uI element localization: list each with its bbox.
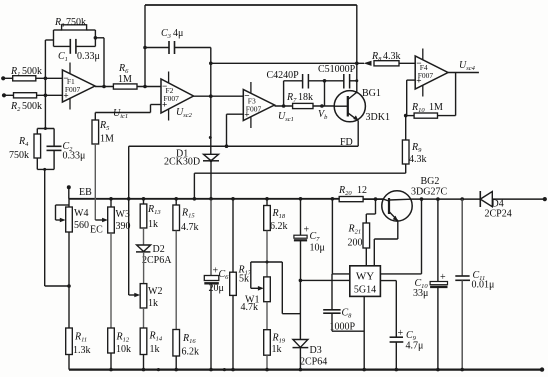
W1 wiper (251, 287, 260, 289)
C2 branch lower lead (53, 150, 55, 169)
wire R18 to W1 (266, 231, 268, 277)
wire C8 leg (331, 274, 333, 309)
feedback loop top wire (54, 29, 62, 31)
resistor R7 (293, 103, 313, 108)
wire R2 to F1 non-inverting input (37, 94, 63, 96)
node F1 output (102, 85, 106, 89)
transistor BG2 (382, 191, 412, 221)
wire D3 node down (299, 280, 301, 339)
node bus/R13 (142, 197, 146, 201)
svg-text:1k: 1k (148, 298, 158, 309)
node bottom bus R19 (265, 368, 269, 372)
node bus/W3 (109, 197, 113, 201)
wire bus to W3 (110, 199, 112, 207)
wire R19 to bottom bus (266, 355, 268, 369)
op-amp F3 (243, 90, 274, 121)
wire bus to R17 (232, 199, 234, 272)
node collector wire/WY riser (420, 197, 424, 201)
wire R16 to bottom bus (175, 356, 177, 370)
node column/bias bus (209, 197, 213, 201)
input terminal 2 (2, 93, 6, 97)
svg-text:D3: D3 (310, 345, 322, 356)
wire bus to W4 (68, 199, 70, 207)
wire EB stub (68, 187, 70, 199)
svg-text:WY: WY (356, 271, 374, 283)
svg-text:W4: W4 (74, 208, 88, 219)
W4 wiper (56, 219, 63, 221)
wire bus to C6 (210, 199, 212, 276)
node lower rail/bus (193, 197, 197, 201)
node F2 output branch (209, 94, 213, 98)
wire W3 to R12 (110, 233, 112, 328)
capacitor C11 (455, 275, 469, 277)
svg-text:BG1: BG1 (362, 88, 381, 99)
wire top rail left down to F2 input (144, 5, 146, 87)
wire C3 right lead (175, 47, 211, 49)
output terminal plus (543, 197, 547, 201)
wire C6 to bottom bus (210, 283, 212, 369)
wire bus to C7 (300, 199, 302, 235)
resistor R8 (374, 61, 399, 66)
svg-text:1M: 1M (100, 134, 114, 145)
resistor R20 (339, 197, 363, 202)
wire bus down to WY (331, 199, 333, 274)
resistor R5 (92, 120, 99, 144)
wire R7 to BG1 base (313, 105, 334, 107)
resistor R9 (402, 140, 409, 164)
wire bus to R18 (266, 199, 268, 206)
wire BG1 emitter down (357, 121, 359, 147)
wire R10 right lead (438, 115, 456, 117)
capacitor C9 (390, 336, 403, 338)
node Vb (320, 104, 324, 108)
svg-text:12: 12 (357, 185, 367, 196)
terminal EB (67, 185, 71, 189)
svg-text:0.33μ: 0.33μ (77, 51, 100, 62)
wire rail corner to W2 wiper (128, 199, 130, 295)
wire D3 node to WY (300, 279, 349, 281)
resistor R18 (264, 206, 271, 231)
potentiometer W4 (66, 207, 73, 232)
wire R10 left lead (406, 115, 414, 117)
wire Vb riser (324, 81, 326, 106)
node C3 left (143, 46, 147, 50)
node feedback right (94, 36, 98, 40)
wire R5 top to F2 plus (94, 113, 96, 121)
potentiometer W2 (140, 284, 147, 308)
feedback loop right side (94, 30, 96, 46)
svg-text:−: − (63, 73, 68, 83)
potentiometer W1 (264, 277, 271, 302)
node bus/R17 (231, 197, 235, 201)
node W1 top junction (266, 261, 269, 264)
diode D4 (479, 191, 481, 207)
wire WY right pin2 (380, 280, 396, 282)
diode D1 (204, 154, 219, 161)
W2 wiper arrow (129, 294, 137, 296)
node bus/WY riser (331, 197, 335, 201)
wire R6 to F2 inverting node (137, 86, 161, 88)
wire F3 plus from rail (227, 113, 244, 115)
svg-text:−: − (162, 81, 167, 91)
wire R21 to WY top (365, 248, 367, 266)
svg-text:0.01μ: 0.01μ (472, 280, 495, 291)
resistor R2 (14, 93, 37, 98)
feedback stub to output riser (95, 37, 104, 39)
svg-text:750k: 750k (9, 150, 29, 161)
W3 wiper from R5 (94, 144, 96, 220)
wire C4 to C5 (308, 80, 343, 82)
wire W1 wiper rail (251, 261, 282, 263)
svg-text:W2: W2 (148, 286, 162, 297)
wire top rail right down to BG1 collector (356, 5, 358, 92)
svg-text:+: + (244, 109, 249, 119)
node collector/C11 (460, 197, 464, 201)
svg-text:4μ: 4μ (173, 28, 183, 39)
wire R12 to bottom bus (110, 353, 112, 370)
svg-text:W3: W3 (116, 209, 130, 220)
node W4-R11 junction (67, 284, 71, 288)
capacitor C1 (69, 39, 71, 54)
wire input2 to R2 (4, 94, 14, 96)
wire F4 output (448, 72, 479, 74)
wire C3 left lead (145, 47, 169, 49)
wire C9 to bottom bus (395, 342, 397, 370)
svg-text:EC: EC (90, 225, 103, 236)
resistor R14 (140, 328, 147, 355)
wire D2 to W2 (143, 252, 145, 284)
node F2 inverting input (143, 85, 147, 89)
svg-text:4.3k: 4.3k (383, 51, 401, 62)
feedback loop bottom wire (54, 45, 71, 47)
node bottom bus C10 (436, 368, 440, 372)
top feedback rail (145, 4, 357, 6)
wire output feedback down (455, 73, 457, 116)
wire WY right pin1 (380, 273, 421, 275)
svg-text:5k: 5k (239, 274, 249, 285)
wire wiper drop (281, 262, 283, 314)
wire C5 to collector (350, 80, 357, 82)
node rail/bus corner (127, 197, 131, 201)
wire F2 output (194, 95, 244, 97)
C2 branch upper lead (53, 129, 55, 147)
node bottom bus C11 (460, 368, 464, 372)
resistor R19 (264, 330, 271, 356)
node collector/C5 (355, 79, 358, 82)
svg-text:C51000P: C51000P (318, 64, 356, 75)
left rail down (44, 169, 46, 286)
capacitor C5 (343, 74, 345, 89)
wire R8 to F4 inverting (399, 62, 415, 64)
svg-text:D2: D2 (153, 244, 165, 255)
node bottom bus R14 (142, 368, 146, 372)
wire C8 bottom (331, 313, 333, 331)
wire D3 to bottom bus (299, 348, 301, 370)
lower rail (194, 172, 405, 174)
wire F3 output (275, 105, 293, 107)
resistor R17 (230, 272, 237, 295)
svg-text:−: − (244, 91, 249, 101)
svg-text:1.3k: 1.3k (73, 345, 91, 356)
bias bus right of R20 (363, 198, 383, 200)
svg-text:+: + (416, 75, 421, 85)
wire feedback riser to F1 output (103, 38, 105, 87)
wire rail corner to bus (128, 146, 130, 199)
svg-text:2CP64: 2CP64 (300, 357, 327, 368)
node small blob (209, 136, 212, 139)
node bottom bus R16 (174, 368, 178, 372)
wire column down to D1 (210, 96, 212, 154)
wire junction to R9 (405, 116, 407, 140)
svg-text:500k: 500k (22, 66, 42, 77)
resistor R6 (113, 84, 137, 89)
resistor R21 (363, 223, 370, 248)
svg-text:5G14: 5G14 (354, 285, 376, 296)
feedback loop left side (53, 30, 55, 46)
R4 branch lower lead (36, 158, 38, 169)
node bottom bus D3 (299, 368, 303, 372)
wire bus to R15 (175, 199, 177, 205)
node D3 top (299, 279, 303, 283)
wire R2-node down to R4C2 (44, 95, 46, 128)
node bottom bus WY (362, 368, 366, 372)
svg-text:4.7k: 4.7k (181, 222, 199, 233)
svg-text:+: + (440, 272, 446, 283)
regulator WY 5G14 (350, 266, 381, 297)
node bus/C7 (299, 197, 303, 201)
resistor R3 (62, 25, 87, 30)
node R2 junction (44, 94, 48, 98)
wire C11 to bottom bus (461, 280, 463, 369)
resistor R10 (414, 113, 437, 118)
node R1/feedback junction (44, 77, 48, 81)
wire BG2 collector out (410, 198, 480, 200)
wire R11 to bottom bus (68, 355, 70, 370)
svg-text:1k: 1k (272, 344, 282, 355)
svg-text:6.2k: 6.2k (182, 347, 200, 358)
svg-text:4.7k: 4.7k (241, 302, 259, 313)
wire D1 to bias bus (210, 161, 212, 199)
svg-text:0.33μ: 0.33μ (63, 151, 86, 162)
svg-text:18k: 18k (298, 92, 313, 103)
svg-text:EB: EB (79, 187, 92, 198)
svg-text:3DK1: 3DK1 (366, 112, 390, 123)
wire R9 to lower rail (405, 164, 407, 173)
node C4C5/Vb junction (323, 79, 327, 83)
wire R13 to D2 (143, 228, 145, 245)
wire C10 to bottom bus (437, 287, 439, 370)
wire BG2 emitter jog (397, 221, 399, 239)
svg-text:6.2k: 6.2k (270, 221, 288, 232)
svg-text:2CP6A: 2CP6A (142, 255, 172, 266)
R4C2 bottom bar (37, 168, 54, 170)
wire F2out column up (210, 48, 212, 97)
svg-text:560: 560 (74, 220, 89, 231)
wire R14 to bottom bus (143, 355, 145, 370)
node bus/R21 branch (374, 197, 378, 201)
wire W1 to R19 (266, 302, 268, 330)
wire input1 to R1 (3, 77, 13, 79)
node collector/C10 (436, 197, 440, 201)
output terminal minus (540, 367, 544, 371)
capacitor C6 electrolytic (204, 276, 219, 281)
capacitor C8 (323, 309, 340, 311)
bias bus (69, 198, 339, 200)
wire R15 to R16 (175, 231, 177, 330)
resistor R4 (34, 134, 41, 158)
capacitor C3 (168, 41, 170, 54)
resistor R15 (173, 205, 180, 231)
wire F4 plus input (407, 79, 416, 81)
node bus/R18 (265, 197, 269, 201)
capacitor C4 (302, 74, 304, 89)
resistor R12 (108, 328, 115, 353)
wire to C11 (461, 199, 463, 276)
node bottom bus C9 (395, 368, 399, 372)
node bottom bus extra1 (157, 368, 160, 371)
node bottom bus R17 (231, 368, 235, 372)
resistor R1 (13, 76, 36, 81)
svg-text:2CP24: 2CP24 (485, 209, 512, 220)
svg-text:+: + (162, 100, 167, 110)
svg-text:4.7μ: 4.7μ (406, 341, 424, 352)
node bottom bus C6 (209, 368, 213, 372)
R4 branch upper lead (36, 129, 38, 135)
feedback rail (129, 145, 359, 147)
svg-text:BG2: BG2 (421, 176, 440, 187)
svg-text:3DG27C: 3DG27C (411, 187, 447, 198)
svg-text:33μ: 33μ (413, 288, 428, 299)
wire inverting node riser (44, 40, 46, 95)
wire C4 left lead (284, 80, 303, 82)
svg-text:1k: 1k (150, 344, 160, 355)
wire to C10 (437, 199, 439, 281)
resistor R16 (173, 330, 180, 357)
svg-text:10μ: 10μ (310, 243, 325, 254)
wire D4 to output terminal (492, 198, 545, 200)
svg-text:−: − (416, 58, 421, 68)
node collector junction top (355, 62, 359, 66)
svg-text:1k: 1k (148, 219, 158, 230)
wire WY bottom to bus (363, 296, 365, 369)
svg-text:1M: 1M (118, 74, 132, 85)
wire F1 output to R6 (95, 86, 113, 88)
input terminal 1 (1, 76, 5, 80)
capacitor C10 electrolytic (430, 282, 447, 285)
svg-text:10k: 10k (116, 344, 131, 355)
wire bus to R13 (143, 199, 145, 204)
resistor R13 (140, 204, 147, 228)
svg-text:C4240P: C4240P (267, 70, 300, 81)
node rail/F3 riser (225, 144, 229, 148)
node bottom bus R12 (109, 368, 113, 372)
node bus/R15 (174, 197, 178, 201)
wire R1 to F1 inverting input (36, 77, 63, 79)
node R10/R9 junction (404, 114, 408, 118)
wire R17 to bottom bus (232, 295, 234, 369)
svg-text:+: + (398, 328, 404, 339)
wire W2 to R14 (143, 308, 145, 328)
svg-text:200: 200 (348, 238, 363, 249)
op-amp F1 (62, 70, 95, 102)
capacitor C2 (47, 145, 62, 147)
wire F2out to R8 rail (211, 62, 364, 64)
bottom bus (69, 368, 542, 370)
svg-text:4.3k: 4.3k (409, 154, 427, 165)
node bottom bus extra2 (223, 368, 226, 371)
diode D2 (137, 245, 151, 252)
wire lower rail drop to bus (193, 173, 195, 199)
wire W4 to junction (68, 232, 70, 328)
potentiometer W3 (108, 207, 115, 233)
wire R21 branch (375, 199, 377, 214)
arrow on R8 rail (364, 61, 372, 66)
node Usc1 (282, 104, 286, 108)
op-amp F2 (161, 79, 194, 113)
wire C7 to D3 node (300, 240, 302, 280)
wire into WY pin1 (332, 273, 349, 275)
svg-text:2CK30D: 2CK30D (164, 157, 200, 168)
svg-text:+: + (63, 91, 68, 101)
op-amp F4 (415, 56, 448, 89)
svg-text:500k: 500k (22, 101, 42, 112)
capacitor C7 electrolytic (294, 235, 307, 238)
wire left rail to R11 column (45, 285, 69, 287)
svg-text:750k: 750k (66, 17, 86, 28)
node column/R8 rail (209, 62, 213, 66)
transistor BG1 (334, 91, 365, 122)
wire Usc1 riser (283, 81, 285, 106)
R4C2 top bar (37, 128, 54, 130)
diode D3 (293, 340, 308, 348)
resistor R11 (66, 328, 73, 355)
svg-text:1M: 1M (429, 102, 443, 113)
